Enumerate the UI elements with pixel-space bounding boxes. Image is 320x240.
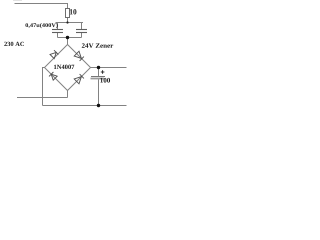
resistor R1 body: [66, 9, 70, 18]
wire resistor bottom lead: [67, 18, 69, 23]
label 1N4007: [54, 65, 74, 69]
wire DC minus rail: [43, 105, 127, 107]
junction node capacitor bus / bridge top: [66, 36, 69, 39]
wire bridge top lead: [67, 38, 69, 45]
label 0,47u(400V): [25, 23, 57, 28]
faint scan ghost top-left: [13, 0, 22, 2]
capacitor C1 plates: [52, 30, 63, 33]
diode D3 bottom-left (1N4007 bridge): [49, 72, 57, 80]
wire 230AC top line: [15, 4, 68, 9]
diode D2 top-right (24V zener): [74, 51, 84, 61]
diode D4 bottom-right (24V zener): [74, 74, 84, 84]
wire capacitor top bus: [56, 22, 84, 24]
junction node DC minus rail: [97, 104, 100, 107]
capacitor C1 leads: [57, 23, 59, 38]
junction node resistor / capacitor top bus: [66, 21, 68, 23]
capacitor C2 plates: [76, 30, 87, 33]
label 230 AC: [4, 42, 24, 46]
wire AC2 bottom input: [17, 97, 68, 99]
wire electrolytic bottom lead: [98, 79, 100, 105]
wire capacitor bottom bus: [58, 37, 82, 39]
label 10: [70, 9, 77, 14]
junction node DC plus rail: [97, 66, 100, 69]
wire left vertex to bottom rail: [43, 68, 45, 106]
label 100: [100, 78, 110, 83]
wire electrolytic top lead: [98, 68, 100, 77]
capacitor C2 leads: [81, 23, 83, 38]
electrolytic capacitor C3 plates: [91, 77, 106, 79]
diode D1 top-left (1N4007 bridge): [50, 50, 58, 58]
label 24V Zener: [82, 43, 113, 48]
wire DC plus rail: [91, 67, 127, 69]
wire bridge bottom lead: [67, 91, 69, 98]
plus sign of C3: [101, 70, 105, 74]
bridge diamond edges: [45, 45, 91, 91]
